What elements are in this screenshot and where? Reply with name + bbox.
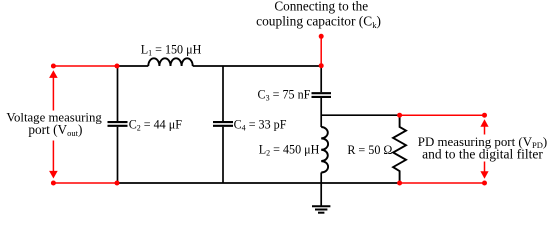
resistor R: [393, 115, 406, 184]
svg-text:C2 = 44 μF: C2 = 44 μF: [129, 118, 183, 133]
node: R bottom junction (red): [397, 181, 402, 186]
wire: red coupling-capacitor lead: [320, 36, 322, 66]
svg-text:C4 = 33 pF: C4 = 33 pF: [234, 118, 287, 133]
svg-text:C3 = 75 nF: C3 = 75 nF: [258, 88, 311, 103]
wire: red PD bottom lead: [400, 182, 485, 184]
node: left bottom (red): [51, 181, 56, 186]
wire: L2 to bottom rail: [320, 173, 322, 184]
wire: red top-left jumper: [53, 65, 117, 67]
node: PD bottom terminal (red): [482, 181, 487, 186]
node: C3 top junction (red): [319, 63, 324, 68]
ground: [312, 183, 330, 213]
svg-text:Connecting to the: Connecting to the: [274, 0, 368, 14]
inductor L2: [321, 127, 328, 173]
capacitor C4: [213, 66, 233, 183]
node: PD top terminal (red): [482, 113, 487, 118]
wire: red bottom-left jumper: [53, 182, 117, 184]
inductor L1: [148, 58, 192, 66]
svg-text:R = 50 Ω: R = 50 Ω: [347, 143, 392, 157]
wire: top rail right segment: [193, 65, 322, 67]
label: voltage measuring port: [2, 111, 104, 141]
node: left top (red): [51, 64, 56, 69]
node: R top junction (red): [397, 113, 402, 118]
wire: top rail left segment: [117, 65, 148, 67]
node: junction C2 bottom (red): [115, 181, 120, 186]
wire: bottom rail: [117, 182, 400, 184]
svg-text:coupling capacitor (Ck): coupling capacitor (Ck): [256, 14, 381, 30]
capacitor C3: [312, 66, 332, 127]
svg-text:and to the digital filter: and to the digital filter: [422, 147, 543, 162]
label: connecting to coupling capacitor: [256, 0, 381, 30]
wire: middle rail: [321, 114, 399, 116]
capacitor C2: [108, 66, 128, 183]
svg-text:L2 = 450 μH: L2 = 450 μH: [259, 143, 320, 158]
arrow: PD measuring span (double-headed, right): [480, 119, 488, 178]
node: coupling capacitor terminal (red): [319, 34, 324, 39]
node: junction C2 top (red): [115, 64, 120, 69]
wire: red PD top lead: [400, 114, 485, 116]
svg-text:L1 = 150 μH: L1 = 150 μH: [141, 42, 202, 57]
label: PD measuring port: [416, 135, 549, 162]
arrow: Vout measuring span (double-headed, left): [49, 70, 58, 178]
